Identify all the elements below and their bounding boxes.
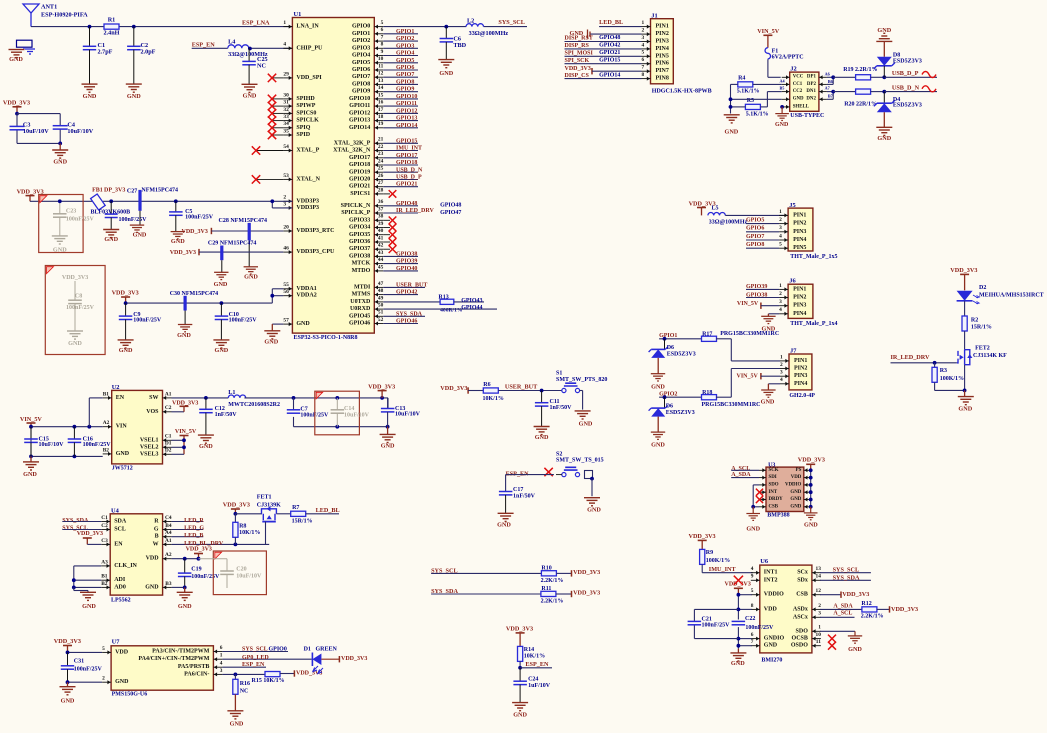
svg-text:MTMS: MTMS [352,292,371,298]
svg-text:VDD_3V3: VDD_3V3 [54,638,81,645]
svg-text:DP1: DP1 [807,75,817,80]
svg-text:100nF/25V: 100nF/25V [229,317,258,323]
wire USB DP pair [827,75,856,84]
no-connect X marks pins38-42 [383,217,396,254]
power tap VDD_3V3 pin20 [182,228,284,235]
svg-text:GPIO43: GPIO43 [461,298,482,304]
svg-text:ESD5Z3V3: ESD5Z3V3 [893,102,922,108]
svg-text:B7: B7 [828,94,833,99]
svg-text:10K/1%: 10K/1% [239,530,260,536]
svg-text:CSB: CSB [796,592,808,598]
wire GP0_LED [222,655,311,661]
resistor R12 [861,601,890,620]
wire GPIO48 net label pin36 [383,201,461,209]
svg-text:15: 15 [378,92,384,98]
connector J6 THT_Male_P_1x4 [788,278,837,328]
wire SYS_SCL to U4 [62,526,101,532]
capacitor C9 [119,303,162,340]
svg-text:VDD: VDD [115,649,129,655]
svg-text:GND: GND [790,490,801,495]
power VDD_3V3 above C13 [368,383,395,398]
ground under FB1 cap [103,230,119,243]
capacitor C13 [381,398,421,427]
capacitor C19 [178,559,220,588]
svg-text:GPIO39: GPIO39 [396,259,417,265]
svg-text:ESP_LNA: ESP_LNA [242,19,270,26]
svg-text:2.2K/1%: 2.2K/1% [541,599,564,605]
capacitor C8 (no-fit, faded) [62,275,95,347]
wire U0RXD GPIO44 [383,305,497,311]
svg-text:GND: GND [579,421,593,428]
ground pad near antenna [9,40,36,63]
no-fit box around C23 [39,195,83,253]
resistor R20 [844,89,884,107]
svg-text:JW5712: JW5712 [112,466,133,472]
svg-text:GND: GND [587,507,601,514]
svg-text:VDD_3V3: VDD_3V3 [842,591,869,598]
svg-text:56: 56 [283,289,289,295]
capacitor C11 [535,391,572,427]
svg-text:L2: L2 [467,18,474,25]
connector J2 USB-TYPEC [790,66,825,120]
diode D6 ESD5Z3V3 (GPIO2) [649,397,695,432]
svg-text:5: 5 [642,50,645,56]
svg-text:GPIO7: GPIO7 [746,234,764,240]
power VDD_3V3 from VOS [172,400,199,412]
resistor R17 [702,331,780,361]
power VDD_3V3 rail left [17,188,44,201]
svg-text:1nF/50V: 1nF/50V [550,405,573,411]
svg-text:L5: L5 [712,206,719,212]
svg-text:43: 43 [378,250,384,256]
svg-text:USB_D_P: USB_D_P [892,70,919,77]
svg-text:23: 23 [378,151,384,157]
svg-text:CC1: CC1 [793,82,803,87]
svg-text:2: 2 [283,195,286,201]
svg-text:GPIO11: GPIO11 [349,103,370,109]
svg-text:100K/1%: 100K/1% [940,376,964,382]
svg-text:C8: C8 [75,293,82,299]
svg-text:GND: GND [848,646,862,653]
svg-text:C2: C2 [101,523,108,529]
svg-text:10uF/10V: 10uF/10V [39,442,65,448]
svg-text:PA4/CIN+/CIN-/TM2PWM: PA4/CIN+/CIN-/TM2PWM [138,656,209,662]
svg-text:GND: GND [82,603,96,610]
svg-text:2: 2 [818,603,821,609]
svg-text:U6: U6 [760,558,769,565]
svg-text:40: 40 [378,228,384,234]
svg-text:INT: INT [769,490,778,495]
svg-text:10: 10 [378,56,384,62]
svg-text:52: 52 [378,317,384,323]
svg-text:PRG15BC330MM1RC: PRG15BC330MM1RC [720,331,779,337]
regulator U2 JW5712 [112,384,163,472]
ground under FET2 [958,390,974,412]
power VDD_3V3 U6 (with X) [725,576,751,595]
svg-text:GPIO15: GPIO15 [599,57,620,63]
svg-text:GPIO2: GPIO2 [396,36,414,42]
svg-text:A1: A1 [165,538,172,544]
power VDD_3V3 above R14 [506,625,533,646]
svg-text:ESD5Z3V3: ESD5Z3V3 [667,351,696,357]
svg-text:XTAL_N: XTAL_N [296,176,320,182]
svg-text:GPIO0: GPIO0 [352,24,370,30]
svg-text:2.2K/1%: 2.2K/1% [861,613,884,619]
svg-text:GPIO48: GPIO48 [599,35,620,41]
svg-text:PA3/CIN-/TIM2PWM: PA3/CIN-/TIM2PWM [152,649,210,655]
resistor R15 [252,672,295,685]
svg-text:DISP_RS: DISP_RS [565,43,590,49]
wire SYS_SDA net label pin51 [383,311,425,317]
ground under C30 [177,325,192,340]
svg-text:GPIO10: GPIO10 [349,96,370,102]
svg-text:GND: GND [793,97,804,102]
svg-text:C24: C24 [528,676,538,682]
svg-text:D2: D2 [979,285,986,291]
svg-text:3: 3 [780,370,783,376]
no-connect X marks U5 INT/DRDY [756,489,763,504]
svg-text:SPICLK_N: SPICLK_N [341,203,371,209]
svg-text:HDGC1.5K-HX-8PWB: HDGC1.5K-HX-8PWB [652,89,712,95]
svg-text:GPIO46: GPIO46 [349,321,370,327]
svg-text:VDD_3V3: VDD_3V3 [112,289,139,296]
svg-text:XTAL_32K_N: XTAL_32K_N [333,148,371,154]
svg-text:OSDO: OSDO [791,643,808,649]
svg-text:GPIO6: GPIO6 [352,67,370,73]
svg-text:VDD_3V3: VDD_3V3 [573,569,600,576]
resistor R4 [731,75,782,94]
node FB1 left junction [58,199,62,203]
svg-text:100nF/25V: 100nF/25V [119,217,148,223]
wire USB DN pair [827,90,856,100]
op-amp U1 ESP32-S3-PICO-1-N8R8 main IC [292,11,374,341]
svg-text:19: 19 [378,121,384,127]
svg-text:SPICS1: SPICS1 [350,191,370,197]
svg-text:SPI_MOSI: SPI_MOSI [565,51,594,57]
svg-text:F1: F1 [772,48,779,54]
svg-text:U0RXD: U0RXD [350,306,371,312]
svg-text:GPIO45: GPIO45 [349,313,370,319]
ground under S1 [575,411,593,428]
ground under C28 [244,267,259,281]
svg-text:7: 7 [642,65,645,71]
svg-text:1: 1 [283,20,286,26]
svg-text:33Ω@100MHz: 33Ω@100MHz [469,30,509,37]
svg-text:17: 17 [378,107,384,113]
no-connect X mark S2 [544,468,552,476]
svg-text:5: 5 [779,242,782,248]
svg-text:5: 5 [751,588,754,594]
svg-text:R4: R4 [738,75,745,81]
wire GPIO46 net label pin52 [383,319,418,325]
wire U5 right rail [809,468,813,513]
svg-text:ESP_EN: ESP_EN [506,470,530,477]
svg-text:B2: B2 [101,581,108,587]
svg-text:7: 7 [381,35,384,41]
svg-text:GPIO9: GPIO9 [396,87,414,93]
svg-text:A2: A2 [103,420,110,426]
svg-text:A4: A4 [780,78,786,83]
svg-text:U7: U7 [112,639,121,646]
svg-text:100nF/25V: 100nF/25V [702,623,731,629]
J5 pins [779,209,806,251]
svg-text:R12: R12 [861,601,871,607]
svg-text:VDD_3V3: VDD_3V3 [77,531,103,537]
svg-text:VIN_5V: VIN_5V [737,301,759,307]
svg-text:48: 48 [378,288,384,294]
svg-text:11: 11 [816,639,821,645]
capacitor C7 [287,407,329,419]
feedthrough capacitor C27 [138,190,141,225]
svg-text:50: 50 [378,303,384,309]
svg-text:100nF/25V: 100nF/25V [133,317,162,323]
svg-text:SPICS0: SPICS0 [296,110,316,116]
svg-text:INT1: INT1 [764,570,778,576]
svg-text:GPIO15: GPIO15 [396,138,417,144]
svg-text:D1: D1 [165,441,172,447]
wire U6 SDO to ground [820,631,855,636]
ground under D6 (GPIO2) [651,432,666,448]
ground J6 pin4 [761,314,779,333]
svg-text:GPIO13: GPIO13 [349,118,370,124]
svg-text:SPICLK: SPICLK [296,118,319,124]
antenna ANT1 [23,4,88,27]
svg-text:GND: GND [133,232,147,239]
svg-text:VDD_3V3: VDD_3V3 [62,275,88,281]
svg-text:LNA_IN: LNA_IN [296,24,319,30]
svg-text:C20: C20 [236,567,246,573]
svg-text:C31: C31 [74,659,84,665]
svg-text:GND: GND [104,236,118,243]
svg-text:GPIO4: GPIO4 [396,51,414,57]
svg-text:ESP_EN: ESP_EN [242,662,265,668]
svg-text:L4: L4 [228,39,235,46]
ground under U5 left [746,514,760,533]
svg-text:10: 10 [816,632,822,638]
svg-text:VIN_5V: VIN_5V [737,374,759,380]
svg-text:R16: R16 [240,681,250,687]
wire A_SDA to R12 [820,604,862,610]
capacitor C23 (no-fit, faded) [52,201,95,253]
wire USER_BUT [498,384,562,393]
power VIN_5V USB [757,28,780,48]
svg-text:6V2A/PPTC: 6V2A/PPTC [772,54,804,60]
svg-text:C30 NFM15PC474: C30 NFM15PC474 [170,291,219,297]
svg-text:VCC: VCC [793,75,804,80]
svg-text:54: 54 [283,144,289,150]
svg-text:4: 4 [780,377,783,383]
svg-text:2: 2 [642,28,645,34]
svg-text:GPIO21: GPIO21 [349,184,370,190]
capacitor C24 [513,668,550,703]
svg-text:IR_LED_DRV: IR_LED_DRV [891,354,931,361]
svg-text:VIN_5V: VIN_5V [20,416,43,423]
svg-text:100nF/25V: 100nF/25V [191,574,220,580]
svg-text:3: 3 [779,299,782,305]
ground under D6 (GPIO1) [651,374,666,391]
svg-text:A4: A4 [165,530,172,536]
svg-text:15R/1%: 15R/1% [971,324,992,330]
svg-text:C17: C17 [513,487,523,493]
svg-text:SHELL: SHELL [793,104,810,109]
wire USB_D_P [884,70,937,77]
node ESP_EN junction [248,47,252,51]
svg-text:R2: R2 [971,318,978,324]
svg-text:PIN4: PIN4 [793,311,806,317]
svg-text:SDO: SDO [796,628,809,634]
wire GPIO7 J5 [746,234,779,240]
svg-text:55: 55 [283,282,289,288]
svg-text:C28 NFM15PC474: C28 NFM15PC474 [219,218,268,224]
svg-text:R11: R11 [541,586,551,592]
svg-text:BMP388: BMP388 [767,512,789,518]
wire GPIO39 J6 [746,284,779,290]
svg-text:45: 45 [378,264,384,270]
capacitor C2 [127,27,156,85]
power tap VDD_3V3 U4 EN [77,531,103,545]
wire A_SDA to U5 [731,472,759,478]
svg-text:D6: D6 [667,345,674,351]
svg-text:GND: GND [439,70,453,77]
svg-text:GPIO4: GPIO4 [352,53,370,59]
wire C3/C4 loop [17,114,60,144]
svg-text:16: 16 [378,100,384,106]
svg-text:C3: C3 [101,538,108,544]
svg-text:VDD3P3_CPU: VDD3P3_CPU [296,249,335,255]
svg-text:GND: GND [215,347,229,354]
svg-text:GH2.0-4P: GH2.0-4P [789,393,815,399]
imu U6 BMI270 [760,558,812,663]
svg-text:GPIO20: GPIO20 [349,177,370,183]
svg-text:USER_BUT: USER_BUT [505,384,538,391]
svg-text:9: 9 [751,574,754,580]
svg-text:GREEN: GREEN [316,647,338,653]
svg-text:VIN: VIN [116,424,128,430]
svg-text:GPIO34: GPIO34 [349,225,370,231]
svg-text:VDDIO: VDDIO [764,592,784,598]
svg-text:GPIO3: GPIO3 [352,45,370,51]
svg-text:GPIO42: GPIO42 [396,290,417,296]
svg-text:PIN6: PIN6 [656,61,669,67]
ground under C12 [198,435,214,450]
ground under C17 [497,513,513,528]
svg-text:CHIP_PU: CHIP_PU [296,45,323,51]
resistor R6 [483,382,504,402]
svg-text:GND: GND [115,679,129,685]
resistor R5 [731,92,782,118]
wire LED_B [172,533,204,539]
svg-text:GND: GND [116,451,130,457]
svg-text:PIN4: PIN4 [794,381,807,387]
svg-text:47: 47 [378,281,384,287]
node C5 junction [174,199,178,203]
svg-text:GND: GND [764,643,778,649]
capacitor C25 [242,49,267,85]
wire GPIO8 J5 [746,242,779,248]
resistor R14 [518,646,546,667]
svg-text:GPIO21: GPIO21 [599,50,620,56]
wire SPI_MOSI GPIO21 [565,50,642,57]
svg-text:GPIO48: GPIO48 [440,203,461,209]
svg-text:6: 6 [642,57,645,63]
svg-text:GND: GND [61,697,75,704]
svg-text:10K/1%: 10K/1% [483,396,504,402]
wire IR_LED_DRV [891,354,957,365]
svg-text:TBD: TBD [453,42,466,49]
resistor R2 [962,316,992,331]
svg-text:6: 6 [220,645,223,651]
wire GPIO5 J5 [746,217,779,223]
power VIN_5V U2 [20,416,43,427]
connector J7 GH2.0-4P [789,348,815,399]
svg-text:A1: A1 [165,391,172,397]
ground under C27 [130,225,147,238]
capacitor C20 (no-fit, faded) [199,559,262,588]
svg-text:GPIO18: GPIO18 [349,162,370,168]
wire LED_BL_DRV [172,541,270,547]
svg-text:14: 14 [378,85,384,91]
svg-text:VDD_3V3: VDD_3V3 [3,99,30,106]
svg-text:VSEL3: VSEL3 [140,451,159,457]
no-fit box around C8 [45,266,105,355]
J6 pins [779,283,806,317]
svg-text:B4: B4 [165,523,172,529]
svg-text:VDD_3V3: VDD_3V3 [798,457,825,464]
no-connect X marks U1 left [252,74,284,184]
node antenna junction 1 [88,25,92,29]
capacitor C22 [732,616,774,631]
no-connect X marks U6 OCSB/OSDO [828,635,836,650]
wire VDD_3V3 output rail [244,396,389,429]
svg-text:4: 4 [283,42,286,48]
svg-text:XTAL_P: XTAL_P [296,148,319,154]
ground under C5 [171,232,186,246]
svg-text:GND: GND [746,526,760,533]
sensor U3 BMP388 [766,462,804,518]
J2 pins [782,75,827,110]
node C6 junction [444,25,448,29]
svg-text:GPIO14: GPIO14 [599,72,620,78]
wires GPIO1-GPIO14 net labels [383,29,418,129]
ferrite bead FB1 [91,188,179,216]
svg-text:GND: GND [381,442,395,449]
svg-text:VDD_3V3: VDD_3V3 [186,547,212,553]
resistor R3 [932,363,966,393]
transistor FET2 CJ3134K KF [957,331,1007,390]
svg-text:LP5562: LP5562 [111,597,131,603]
svg-text:GPIO8: GPIO8 [746,242,764,248]
svg-text:NC: NC [240,689,249,695]
svg-text:GND: GND [296,321,310,327]
led D1 GREEN [304,647,340,674]
wire SYS_SDA pullup [431,588,541,595]
power VDD_3V3 top-left [3,99,30,113]
wire VDD3P3 rail [30,199,292,207]
inductor L4 [228,39,268,59]
ground under C2 [126,84,142,100]
svg-text:C1: C1 [165,434,172,440]
svg-text:SDx: SDx [797,577,808,583]
wire VIN net [29,398,103,458]
svg-text:AD0: AD0 [114,584,126,590]
svg-text:C14: C14 [344,406,354,412]
wire GPIO0 / SYS_SCL [383,19,527,27]
svg-text:VDDIO: VDDIO [785,483,801,488]
svg-text:20: 20 [283,224,289,230]
svg-text:10uF/10V: 10uF/10V [344,412,370,418]
svg-text:GPIO7: GPIO7 [352,74,370,80]
svg-text:J7: J7 [790,348,797,355]
